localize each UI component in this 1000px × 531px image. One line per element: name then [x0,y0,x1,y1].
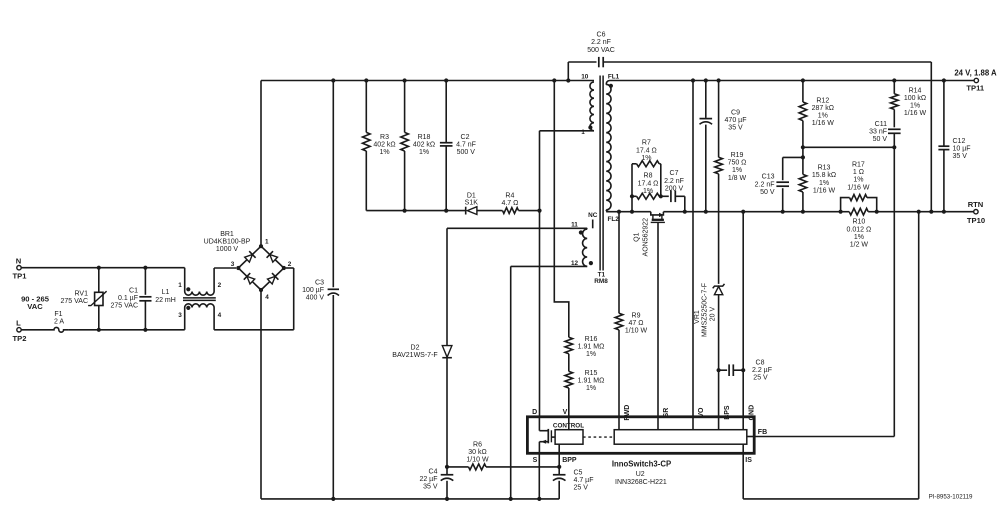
IC pin label S [533,457,538,464]
svg-text:VR1: VR1 [694,310,701,324]
svg-text:VO: VO [698,407,705,418]
svg-text:10 µF: 10 µF [953,146,971,153]
svg-text:1%: 1% [910,103,920,110]
svg-text:S1K: S1K [465,199,479,206]
svg-text:R13: R13 [818,165,831,172]
IC U2 InnoSwitch3-CP body [527,417,754,454]
svg-text:1/16 W: 1/16 W [904,110,927,117]
svg-text:BPS: BPS [724,405,731,420]
svg-text:C3: C3 [315,279,324,286]
svg-text:33 nF: 33 nF [869,129,887,136]
diode D1 [465,192,479,214]
svg-text:C12: C12 [953,138,966,145]
svg-text:R9: R9 [632,313,641,320]
svg-text:R8: R8 [644,173,653,180]
wire RTN rail (R10 to TP10) [875,210,974,214]
wire T1 pin11 to D2 [447,228,587,345]
IC pin label IS [745,457,752,464]
svg-text:R12: R12 [816,97,829,104]
svg-text:FWD: FWD [624,405,631,421]
svg-text:4: 4 [218,312,222,319]
svg-text:1/2 W: 1/2 W [850,242,869,249]
svg-text:1/10 W: 1/10 W [466,456,489,463]
IC pin label BPS [724,405,731,420]
svg-text:C2: C2 [461,134,470,141]
svg-text:C9: C9 [731,109,740,116]
svg-text:25 V: 25 V [574,485,589,492]
wire T1 pin12 to primary return [511,266,588,499]
wire GND pin line [742,212,744,430]
resistor R3 [362,81,395,211]
wire FB divider node [801,145,897,159]
transformer T1 bias winding (pins 11-12) [571,222,593,267]
svg-text:4.7 nF: 4.7 nF [456,142,476,149]
wire BR1 pin4 to primary return [260,290,262,499]
svg-text:C11: C11 [875,121,887,128]
svg-text:4: 4 [265,294,269,301]
svg-text:AON562922: AON562922 [643,218,650,257]
wire D1 to R4 [477,210,501,212]
svg-text:402 kΩ: 402 kΩ [413,142,435,149]
IC pin label FB [758,429,767,436]
resistor R12 [799,81,834,148]
svg-text:R19: R19 [731,152,744,159]
svg-text:20 V: 20 V [710,306,717,321]
transformer NC pin stub [588,212,598,228]
terminal TP10 (RTN) [967,200,985,225]
svg-text:402 kΩ: 402 kΩ [373,142,395,149]
resistor R16 [565,336,604,358]
svg-text:470 µF: 470 µF [725,117,747,124]
capacitor C12 [938,81,970,212]
IC pin label FWD [624,405,631,421]
svg-text:INN3268C-H221: INN3268C-H221 [615,479,667,486]
capacitor C6 (Y-cap) [568,32,931,212]
terminal TP2 (L input) [13,319,27,343]
IC name labels [612,460,671,487]
svg-text:1000 V: 1000 V [216,246,239,253]
label input voltage 90-265 VAC [21,295,50,312]
wire FB line [754,147,894,436]
wire drain node (switching node) [537,131,541,417]
resistor R13 [799,147,836,211]
svg-text:2: 2 [288,261,292,268]
svg-text:L: L [16,319,21,328]
IC internal dashed link [583,436,614,438]
svg-text:1%: 1% [853,177,863,184]
svg-text:UD4KB100-BP: UD4KB100-BP [204,239,251,246]
transformer T1 secondary winding (FL1-FL2) [606,74,619,223]
capacitor C3 [302,81,339,499]
svg-text:GND: GND [748,405,755,421]
svg-text:24 V, 1.88 A: 24 V, 1.88 A [954,69,997,78]
svg-text:BAV21WS-7-F: BAV21WS-7-F [392,352,437,359]
svg-text:15.8 kΩ: 15.8 kΩ [812,172,836,179]
resistor R7 [632,140,661,197]
svg-text:RTN: RTN [968,200,984,209]
svg-text:1.91 MΩ: 1.91 MΩ [578,377,605,384]
resistor R10 [841,208,877,248]
svg-text:R10: R10 [852,219,865,226]
svg-text:2.2 nF: 2.2 nF [591,39,611,46]
wire BPP node [557,444,561,475]
svg-text:1%: 1% [818,113,828,120]
svg-text:17.4 Ω: 17.4 Ω [638,180,659,187]
capacitor C9 [700,81,747,212]
varistor RV1 [61,268,107,330]
resistor R9 [615,212,647,430]
svg-text:R3: R3 [380,134,389,141]
svg-text:FB: FB [758,429,767,436]
svg-text:R18: R18 [418,134,431,141]
svg-text:BPP: BPP [562,457,577,464]
svg-text:1: 1 [581,129,585,136]
wire N rail (TP1 to L1 pin1) [21,266,184,292]
svg-text:1%: 1% [379,149,389,156]
wire BR1 pin1 to HV rail [261,81,333,247]
wire HV rail to R16 (V-pin divider) [554,81,569,338]
svg-text:C6: C6 [597,32,606,39]
svg-text:3: 3 [178,312,182,319]
svg-text:287 kΩ: 287 kΩ [812,105,834,112]
svg-text:2.2 nF: 2.2 nF [664,178,684,185]
svg-text:1/16 W: 1/16 W [812,120,835,127]
wire RTN rail (Q1 source to R10) [663,210,842,214]
bridge rectifier BR1 [204,231,292,301]
svg-text:22 µF: 22 µF [419,476,437,483]
svg-text:1/16 W: 1/16 W [813,187,836,194]
svg-text:C4: C4 [429,468,438,475]
svg-text:R7: R7 [642,140,651,147]
svg-text:C5: C5 [574,469,583,476]
svg-text:4.7 Ω: 4.7 Ω [501,200,518,207]
svg-text:R15: R15 [585,370,598,377]
capacitor C2 [440,81,476,211]
svg-text:1%: 1% [586,351,596,358]
svg-text:TP1: TP1 [13,272,28,281]
svg-text:C8: C8 [756,359,765,366]
svg-text:3: 3 [231,261,235,268]
wire L1 pin4 to bridge pin2 [214,268,294,330]
svg-text:35 V: 35 V [953,153,968,160]
svg-text:1%: 1% [641,155,651,162]
fuse F1 [21,311,68,332]
transformer T1 primary winding (pins 10-1) [581,74,594,136]
svg-text:35 V: 35 V [423,484,438,491]
capacitor C4 [419,467,453,499]
svg-text:C1: C1 [129,287,138,294]
svg-text:50 V: 50 V [760,189,775,196]
svg-text:275 VAC: 275 VAC [61,298,89,305]
zener diode VR1 [694,283,724,429]
IC internal primary MOSFET [539,417,555,454]
wire primary return [261,497,559,501]
wire S pin to primary return [538,453,540,499]
svg-text:1/16 W: 1/16 W [847,184,870,191]
svg-text:VAC: VAC [27,302,43,311]
svg-text:L1: L1 [162,289,170,296]
svg-text:R14: R14 [909,87,922,94]
IC pin label D [532,409,537,416]
svg-text:1/10 W: 1/10 W [625,328,648,335]
inductor L1 (common-mode choke) [155,282,221,319]
capacitor C7 [661,170,685,212]
svg-text:R6: R6 [473,442,482,449]
svg-text:10: 10 [581,74,589,81]
transformer T1 core [594,76,608,286]
svg-text:47 Ω: 47 Ω [629,320,644,327]
terminal TP11 (24V output) [954,69,997,93]
svg-text:1%: 1% [419,149,429,156]
svg-text:F1: F1 [54,311,62,318]
IC pin label GND [748,405,755,421]
svg-text:500 V: 500 V [457,149,476,156]
resistor R19 [715,81,747,284]
capacitor C1 [111,268,152,330]
svg-text:D2: D2 [411,344,420,351]
resistor R8 [630,173,663,212]
transistor Q1 (sync rectifier) [634,212,665,257]
svg-text:200 V: 200 V [665,185,684,192]
svg-text:100 µF: 100 µF [302,287,324,294]
svg-text:IS: IS [745,457,752,464]
svg-text:1: 1 [178,282,182,289]
svg-text:N: N [16,256,21,265]
svg-text:400 V: 400 V [306,295,325,302]
document number PI-8953-102119 [929,493,973,500]
IC pin label SR [663,408,670,418]
svg-text:2: 2 [218,282,222,289]
wire HV+ rail [331,78,594,82]
svg-text:V: V [563,409,568,416]
capacitor C8 [717,359,773,381]
svg-text:0.1 µF: 0.1 µF [118,295,138,302]
wire IS return line [743,212,919,499]
resistor R14 [891,81,927,128]
svg-text:1%: 1% [643,188,653,195]
svg-text:TP2: TP2 [13,334,27,343]
wire SR gate line [657,222,659,429]
svg-text:25 V: 25 V [753,375,768,382]
wire R4 to drain node [519,210,540,212]
resistor R18 [401,81,435,211]
IC internal secondary block [614,430,754,454]
svg-text:1%: 1% [586,385,596,392]
svg-text:S: S [533,457,538,464]
svg-text:RM8: RM8 [594,278,608,285]
svg-text:2.2 nF: 2.2 nF [755,181,775,188]
wire R16 to R15 [568,354,570,372]
svg-text:22 mH: 22 mH [155,297,176,304]
svg-text:FL2: FL2 [608,216,620,223]
svg-text:50 V: 50 V [873,136,888,143]
IC CONTROL block [553,423,584,445]
IC pin label VO [698,407,705,418]
svg-text:2.2 µF: 2.2 µF [752,367,772,374]
svg-text:RV1: RV1 [75,291,89,298]
svg-text:500 VAC: 500 VAC [587,47,615,54]
svg-text:1/8 W: 1/8 W [728,175,747,182]
svg-text:100 kΩ: 100 kΩ [904,95,926,102]
resistor R4 [501,192,519,213]
svg-text:SR: SR [663,408,670,418]
resistor R17 [841,162,877,212]
wire L rail (F1 to L1 pin3) [68,308,185,332]
svg-text:NC: NC [588,212,598,219]
svg-text:D: D [532,409,537,416]
svg-text:CONTROL: CONTROL [553,423,584,430]
capacitor C11 [869,121,901,147]
diode D2 [392,344,452,359]
IC pin label V [563,409,568,416]
svg-text:FL1: FL1 [608,74,620,81]
svg-text:30 kΩ: 30 kΩ [468,449,486,456]
svg-text:4.7 µF: 4.7 µF [574,477,594,484]
capacitor C13 [755,157,803,211]
wire T1 pin1 to drain node [540,130,595,132]
svg-text:InnoSwitch3-CP: InnoSwitch3-CP [612,460,671,469]
svg-text:U2: U2 [636,471,645,478]
svg-text:1%: 1% [732,167,742,174]
wire VO sense line [692,81,694,430]
wire 24V output rail [610,78,974,82]
svg-text:BR1: BR1 [220,231,234,238]
svg-text:R16: R16 [585,336,598,343]
svg-text:2 A: 2 A [54,318,64,325]
svg-text:0.012 Ω: 0.012 Ω [847,226,872,233]
capacitor C5 [553,469,594,499]
wire L1 pin2 to bridge pin3 [214,268,236,292]
terminal TP1 (N input) [13,256,28,280]
svg-text:PI-8953-102119: PI-8953-102119 [929,493,973,500]
svg-text:Q1: Q1 [634,232,641,241]
svg-text:17.4 Ω: 17.4 Ω [636,147,657,154]
svg-text:C7: C7 [670,170,679,177]
wire D2 to R6/C4 node [445,358,449,469]
svg-text:1.91 MΩ: 1.91 MΩ [578,343,605,350]
svg-text:1: 1 [265,239,269,246]
svg-text:1%: 1% [819,180,829,187]
resistor R6 [447,442,559,470]
IC pin label BPP [562,457,577,464]
svg-text:R4: R4 [505,192,514,199]
svg-text:275 VAC: 275 VAC [111,303,139,310]
resistor R15 [565,370,604,392]
wire FL2 to Q1 drain [606,210,651,214]
svg-text:R17: R17 [852,162,865,169]
svg-text:1 Ω: 1 Ω [853,169,864,176]
svg-text:35 V: 35 V [728,125,743,132]
svg-text:C13: C13 [762,174,775,181]
svg-text:MMSZ5250C-7-F: MMSZ5250C-7-F [702,283,709,337]
svg-text:TP11: TP11 [966,84,985,93]
svg-text:TP10: TP10 [967,216,985,225]
wire R15 to V pin [568,388,570,430]
wire clamp bottom node [366,209,465,213]
svg-text:1%: 1% [854,234,864,241]
svg-text:750 Ω: 750 Ω [728,160,747,167]
